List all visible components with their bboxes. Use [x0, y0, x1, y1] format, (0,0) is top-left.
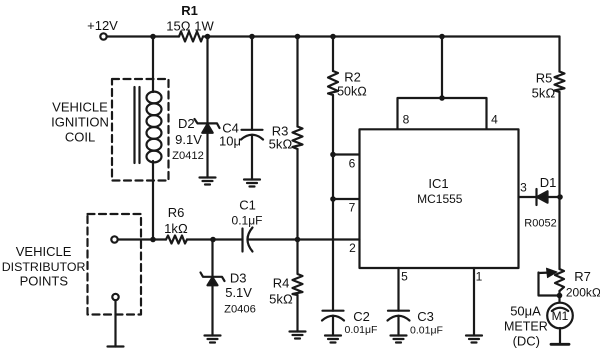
coil core lines	[133, 87, 135, 163]
ground D3	[205, 336, 221, 343]
wire R3 to node	[296, 149, 298, 240]
zener diode D2	[195, 119, 220, 128]
svg-text:C2: C2	[353, 309, 370, 324]
svg-text:IGNITION: IGNITION	[51, 115, 109, 130]
svg-text:D3: D3	[230, 270, 247, 285]
wire R2 to pin6 node	[332, 95, 334, 155]
svg-text:R2: R2	[344, 70, 361, 85]
svg-text:R5: R5	[536, 71, 553, 86]
node R2 top	[330, 34, 336, 40]
node D1 right	[557, 194, 563, 200]
wire C4 branch	[251, 37, 253, 130]
wire bottom contact down	[114, 300, 116, 346]
diode D1	[535, 189, 537, 205]
svg-text:1kΩ: 1kΩ	[164, 221, 188, 236]
wire meter to ground	[559, 328, 561, 344]
wire top feed to pins 8-4 bracket	[441, 37, 443, 99]
ground distributor	[108, 345, 124, 347]
ground R4	[290, 332, 306, 339]
node pin7	[330, 196, 336, 202]
svg-text:5.1V: 5.1V	[225, 285, 252, 300]
svg-text:DISTRIBUTOR: DISTRIBUTOR	[2, 260, 86, 274]
svg-text:D1: D1	[540, 175, 557, 190]
svg-text:POINTS: POINTS	[20, 273, 69, 288]
svg-text:METER: METER	[504, 319, 548, 333]
wire pin6 stub	[333, 153, 360, 155]
svg-text:50kΩ: 50kΩ	[337, 85, 367, 99]
IC U1 box	[360, 129, 519, 268]
svg-text:C3: C3	[417, 309, 434, 324]
distributor point contact bottom	[112, 294, 118, 300]
svg-text:C1: C1	[239, 198, 256, 213]
wire from top contact	[118, 238, 166, 240]
svg-text:(DC): (DC)	[513, 333, 540, 348]
vehicle ignition coil box	[112, 79, 169, 181]
ground C2	[325, 336, 341, 343]
svg-text:+12V: +12V	[87, 18, 118, 33]
svg-text:0.1μF: 0.1μF	[232, 214, 263, 228]
svg-text:R7: R7	[574, 269, 591, 284]
node D3 top	[210, 237, 216, 243]
capacitor C3	[388, 310, 409, 312]
resistor R3	[293, 127, 303, 150]
wire R6 to C1	[187, 238, 243, 240]
svg-text:COIL: COIL	[65, 130, 95, 145]
wire pin2 row	[248, 238, 360, 240]
node coil-R6 junction	[150, 237, 156, 243]
svg-text:2: 2	[349, 241, 356, 255]
wire right branch R5 top	[558, 37, 560, 72]
svg-text:R6: R6	[168, 205, 185, 220]
potentiometer R7	[555, 269, 564, 291]
svg-text:5: 5	[401, 270, 408, 284]
svg-text:8: 8	[403, 113, 410, 127]
svg-text:5kΩ: 5kΩ	[532, 86, 556, 101]
svg-text:4: 4	[491, 113, 498, 127]
capacitor C1	[241, 229, 243, 252]
resistor R5	[555, 72, 565, 93]
wire pin3 stub	[519, 196, 537, 198]
wire R4 bottom	[296, 295, 298, 332]
node C4 top	[249, 34, 255, 40]
vehicle distributor points box	[88, 214, 142, 315]
svg-text:MC1555: MC1555	[417, 192, 463, 206]
wire R5 to D1 node	[558, 92, 560, 197]
wire coil branch upper	[152, 37, 154, 93]
svg-text:R4: R4	[273, 276, 290, 291]
svg-text:VEHICLE: VEHICLE	[52, 100, 108, 115]
svg-text:5kΩ: 5kΩ	[269, 292, 293, 307]
wire pin1 stub	[473, 268, 475, 336]
distributor point contact top	[111, 236, 117, 242]
zener diode D3	[201, 273, 225, 282]
svg-text:10μ: 10μ	[219, 134, 241, 149]
resistor R1	[179, 32, 203, 42]
svg-text:0.01μF: 0.01μF	[345, 324, 378, 336]
capacitor C4	[242, 129, 263, 131]
svg-text:15Ω 1W: 15Ω 1W	[166, 19, 214, 34]
resistor R2	[328, 71, 338, 95]
wire top rail left of R1	[107, 35, 179, 37]
svg-text:1: 1	[476, 270, 483, 284]
node bracket	[439, 95, 445, 101]
svg-text:IC1: IC1	[428, 176, 448, 191]
svg-text:3: 3	[520, 181, 527, 195]
meter M1	[547, 303, 573, 329]
svg-text:M1: M1	[552, 309, 569, 323]
wire D1 node to R7	[558, 197, 560, 269]
ground pin1	[466, 336, 482, 343]
svg-text:Z0412: Z0412	[172, 150, 204, 162]
inductor L1 coil loops	[147, 92, 162, 104]
node R7 bottom	[557, 293, 563, 299]
wire D2 branch	[206, 37, 208, 124]
resistor R6	[166, 236, 187, 244]
capacitor C2	[323, 310, 344, 312]
wire pin6 node to pin7 node	[332, 155, 334, 200]
svg-text:50μA: 50μA	[510, 304, 541, 319]
wire coil branch lower	[152, 161, 154, 240]
node R3 top	[295, 34, 301, 40]
node R3-R4 junction	[295, 237, 301, 243]
ground M1	[551, 343, 569, 346]
+12V terminal	[100, 33, 106, 39]
node coil top	[150, 34, 156, 40]
wire pin7 stub	[333, 198, 360, 200]
node D2 top	[205, 34, 211, 40]
svg-text:6: 6	[349, 157, 356, 171]
svg-text:D2: D2	[178, 116, 195, 131]
ground C4	[244, 180, 260, 187]
svg-text:R0052: R0052	[524, 218, 556, 230]
resistor R4	[293, 240, 303, 296]
wire pin7 down to C2	[332, 199, 334, 311]
wire D3 branch	[211, 240, 213, 277]
svg-text:5kΩ: 5kΩ	[269, 137, 293, 152]
wire pin8-4 bracket	[398, 98, 487, 129]
svg-text:7: 7	[349, 201, 356, 215]
wire R2 branch upper	[332, 37, 334, 72]
node pin8-4 feed top	[439, 34, 445, 40]
ground C3	[391, 336, 407, 343]
svg-text:Z0406: Z0406	[224, 304, 256, 316]
svg-text:VEHICLE: VEHICLE	[16, 244, 72, 259]
node pin6	[330, 152, 336, 158]
wire pin5 stub	[397, 268, 399, 311]
svg-text:0.01μF: 0.01μF	[410, 325, 443, 337]
svg-text:200kΩ: 200kΩ	[566, 286, 600, 300]
svg-text:9.1V: 9.1V	[175, 132, 202, 147]
wire R3 branch upper	[296, 37, 298, 127]
R7 wiper arm	[539, 272, 549, 275]
svg-text:R1: R1	[181, 3, 198, 18]
wire top rail right of R1	[203, 35, 560, 37]
ground D2	[200, 178, 216, 185]
